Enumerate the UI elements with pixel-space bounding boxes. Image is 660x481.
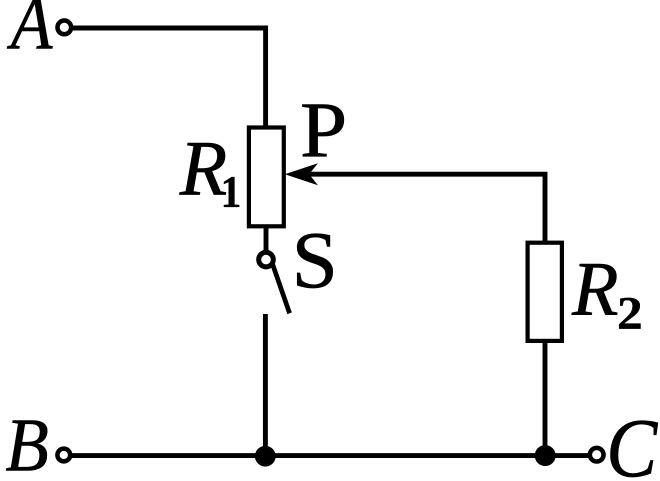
svg-text:R: R — [571, 246, 619, 332]
svg-text:B: B — [5, 402, 48, 481]
svg-text:P: P — [300, 86, 347, 173]
svg-text:R: R — [179, 124, 227, 211]
svg-text:A: A — [7, 0, 53, 65]
svg-text:2: 2 — [617, 287, 643, 339]
svg-text:1: 1 — [221, 167, 242, 217]
svg-text:C: C — [606, 403, 658, 481]
svg-text:S: S — [292, 216, 338, 305]
